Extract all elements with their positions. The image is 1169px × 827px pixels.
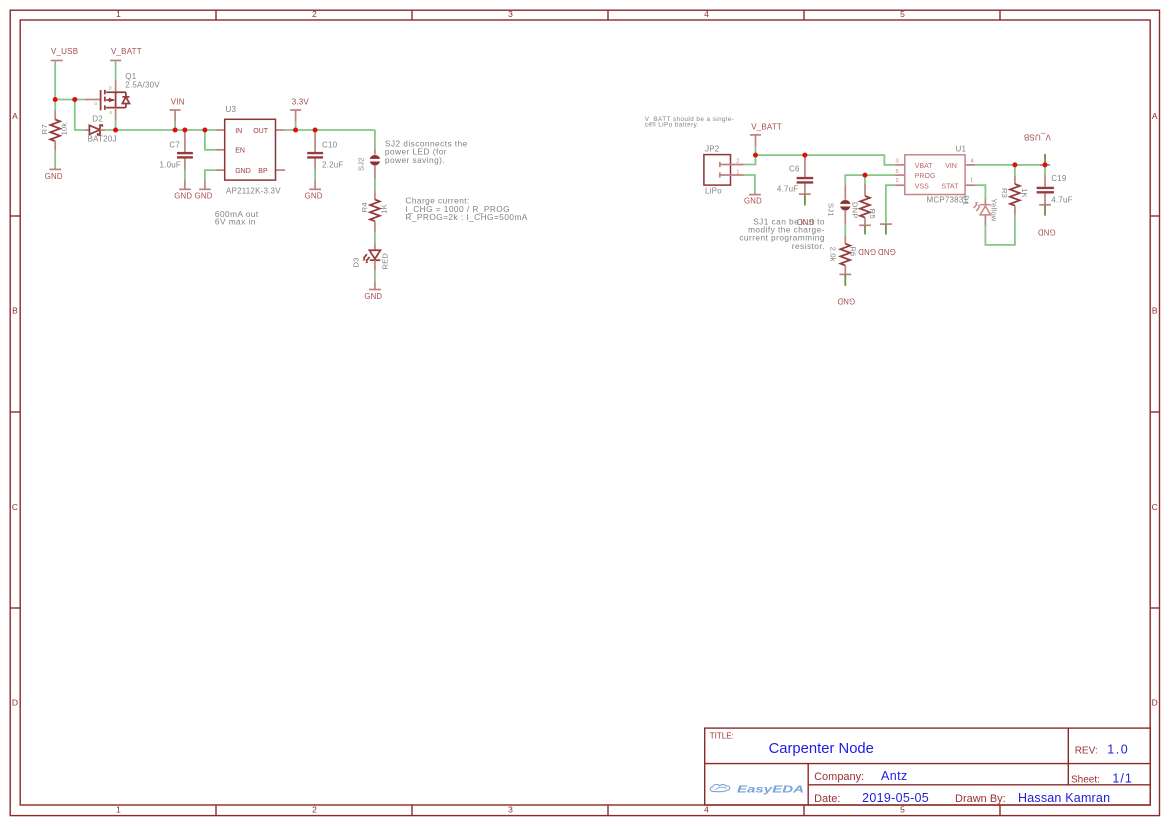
wire rail down to SJ2	[374, 130, 376, 149]
svg-text:1: 1	[116, 9, 121, 19]
svg-text:2019-05-05: 2019-05-05	[862, 791, 929, 805]
svg-text:VBAT: VBAT	[915, 163, 933, 170]
svg-text:5: 5	[896, 169, 899, 175]
resistor R6	[829, 236, 858, 275]
wire Q1 source to main rail	[115, 120, 117, 131]
svg-text:2: 2	[896, 178, 899, 184]
net flag 3.3V	[290, 97, 309, 121]
svg-text:JP2: JP2	[705, 145, 720, 154]
node 3.3V junction	[293, 128, 298, 133]
net flag V_BATT right	[750, 123, 782, 146]
wire D2 to Q1 source node	[105, 129, 115, 131]
wire JP2 pin1 to ground	[744, 175, 755, 193]
wire main rail to U3 IN	[116, 129, 216, 131]
node EN branch junction	[202, 128, 207, 133]
svg-text:AP2112K-3.3V: AP2112K-3.3V	[226, 187, 281, 196]
svg-text:5: 5	[900, 9, 905, 19]
svg-text:Carpenter Node: Carpenter Node	[769, 741, 874, 757]
svg-text:SJ1: SJ1	[827, 203, 836, 217]
svg-text:4: 4	[704, 9, 709, 19]
svg-text:R7: R7	[40, 124, 49, 134]
wire STAT to LED	[976, 185, 986, 199]
frame tick right A/B	[1150, 215, 1159, 217]
frame tick top 5	[999, 10, 1001, 20]
svg-text:EN: EN	[235, 148, 245, 155]
svg-text:SJ2: SJ2	[356, 157, 365, 171]
svg-text:3: 3	[896, 159, 899, 165]
svg-text:D: D	[12, 697, 18, 707]
wire main rail right	[756, 155, 895, 165]
svg-text:3.3V: 3.3V	[292, 97, 310, 106]
svg-text:V_USB: V_USB	[1024, 133, 1051, 142]
capacitor C6	[777, 155, 813, 194]
resistor R4	[360, 191, 388, 232]
wire V_USB down	[54, 61, 56, 99]
frame tick bottom 4	[803, 805, 805, 816]
svg-text:TITLE:: TITLE:	[710, 732, 734, 741]
frame tick bottom 2	[411, 805, 413, 816]
ground below R6 rotated	[837, 274, 855, 305]
title block divider rev cell	[1067, 728, 1069, 785]
net flag V_USB rotated	[1024, 133, 1051, 165]
svg-text:R6: R6	[849, 246, 858, 256]
svg-text:VSS: VSS	[915, 183, 929, 190]
svg-text:2: 2	[312, 805, 317, 815]
svg-text:V_USB: V_USB	[51, 47, 78, 56]
svg-text:4.7uF: 4.7uF	[777, 185, 798, 194]
svg-text:V_BATT: V_BATT	[751, 123, 782, 132]
wire C10 to ground	[314, 169, 316, 180]
frame tick bottom 5	[999, 805, 1001, 816]
wire V_USB to gate	[55, 99, 84, 101]
svg-text:U1: U1	[956, 145, 967, 154]
ground below C6 rotated	[796, 194, 814, 226]
wire branch down to D2	[75, 100, 85, 131]
op-amp U1 charger	[895, 145, 976, 205]
svg-text:V_BATT: V_BATT	[111, 47, 142, 56]
frame tick left C/D	[10, 607, 20, 609]
svg-text:1: 1	[736, 169, 739, 175]
wire U3 GND pin	[205, 170, 216, 180]
svg-text:D1: D1	[962, 195, 971, 205]
svg-text:VIN: VIN	[171, 97, 185, 106]
LED D1	[962, 195, 999, 225]
frame tick top 3	[607, 10, 609, 20]
wire EN branch	[205, 130, 216, 150]
capacitor C7	[160, 130, 193, 169]
title block box	[705, 728, 1150, 805]
svg-text:DNP: DNP	[850, 202, 859, 219]
node C19 junction	[1043, 162, 1048, 167]
svg-text:B: B	[1152, 305, 1158, 315]
wire U3 OUT rail	[285, 129, 375, 131]
transistor Q1	[85, 72, 161, 120]
svg-text:2.2uF: 2.2uF	[322, 160, 343, 169]
svg-text:GND: GND	[45, 172, 63, 181]
svg-text:GND: GND	[174, 192, 192, 201]
node PROG junction	[863, 173, 868, 178]
svg-text:cell LiPo battery.: cell LiPo battery.	[645, 122, 699, 129]
svg-text:D2: D2	[92, 115, 103, 124]
svg-text:R3: R3	[1000, 188, 1009, 198]
note charge current	[405, 196, 527, 223]
svg-text:STAT: STAT	[942, 183, 960, 190]
svg-text:OUT: OUT	[253, 128, 269, 135]
svg-text:G: G	[94, 101, 97, 106]
svg-text:Drawn By:: Drawn By:	[955, 793, 1006, 805]
svg-text:LiPo: LiPo	[705, 187, 722, 196]
svg-text:Company:: Company:	[814, 771, 864, 783]
frame tick top 2	[411, 10, 413, 20]
svg-text:PROG: PROG	[915, 173, 936, 180]
note V_BATT single cell	[645, 116, 735, 129]
node VIN junction	[173, 128, 178, 133]
node V_BATT junction	[753, 153, 758, 158]
svg-text:Sheet:: Sheet:	[1071, 774, 1100, 785]
connector JP2	[704, 145, 744, 196]
svg-text:GND: GND	[305, 191, 323, 200]
ground below U3	[195, 180, 213, 200]
svg-text:2: 2	[736, 158, 739, 164]
svg-text:C7: C7	[169, 141, 180, 150]
node C6 junction	[802, 153, 807, 158]
wire JP2 pin2 to rail	[744, 155, 756, 164]
svg-text:GND: GND	[235, 168, 251, 175]
svg-text:D3: D3	[352, 257, 361, 267]
wire VSS to ground	[886, 185, 895, 224]
svg-text:C: C	[12, 502, 18, 512]
net flag V_BATT	[110, 47, 142, 60]
ground below VSS rotated	[878, 224, 896, 256]
svg-text:1: 1	[116, 805, 121, 815]
svg-text:GND: GND	[858, 247, 876, 256]
svg-text:2.0k: 2.0k	[829, 247, 838, 262]
node gate branch junction	[72, 97, 77, 102]
svg-text:resistor.: resistor.	[792, 241, 825, 251]
wire LED to R3 bottom	[985, 215, 1015, 245]
svg-text:R4: R4	[360, 202, 369, 212]
svg-text:GND: GND	[364, 292, 382, 301]
wire V_BATT stub	[755, 146, 757, 155]
wire R4 to D3	[374, 232, 376, 243]
capacitor C19	[1037, 165, 1073, 205]
svg-text:VIN: VIN	[945, 163, 957, 170]
svg-text:BAT20J: BAT20J	[88, 134, 117, 143]
title block divider horizontal 1	[705, 763, 1150, 765]
svg-text:REV:: REV:	[1075, 745, 1098, 756]
EasyEDA logo cloud	[710, 784, 730, 791]
frame tick bottom 3	[607, 805, 609, 816]
node R3 junction	[1012, 162, 1017, 167]
svg-text:C: C	[1152, 502, 1158, 512]
node C7 junction	[182, 128, 187, 133]
svg-text:3: 3	[508, 9, 513, 19]
svg-text:IN: IN	[235, 128, 242, 135]
svg-text:GND: GND	[744, 197, 762, 206]
net flag VIN	[170, 97, 185, 121]
svg-text:A: A	[12, 111, 18, 121]
wire SJ1 to R6	[844, 224, 846, 236]
net flag V_USB	[51, 47, 79, 60]
svg-text:A: A	[1152, 111, 1158, 121]
LED D3	[352, 243, 390, 270]
svg-text:5: 5	[900, 805, 905, 815]
resistor R5	[850, 175, 877, 225]
wire C7 to ground	[184, 169, 186, 180]
wire SJ2 to R4	[374, 179, 376, 191]
node V_USB junction	[53, 97, 58, 102]
svg-text:6V max in: 6V max in	[215, 216, 256, 226]
svg-text:2: 2	[312, 9, 317, 19]
svg-text:BP: BP	[258, 168, 268, 175]
frame tick left B/C	[10, 411, 20, 413]
node Q1 source junction	[113, 128, 118, 133]
resistor R7	[40, 100, 69, 151]
title block divider horizontal 2	[808, 784, 1150, 786]
svg-text:C10: C10	[322, 141, 338, 150]
frame tick top 1	[215, 10, 217, 20]
svg-text:S: S	[109, 110, 112, 115]
ground below R7	[45, 167, 63, 181]
wire VIN rail	[976, 164, 1045, 166]
svg-text:U3: U3	[226, 105, 237, 114]
frame tick bottom 1	[215, 805, 217, 816]
svg-text:GND: GND	[837, 297, 855, 306]
svg-text:R_PROG=2k : I_CHG=500mA: R_PROG=2k : I_CHG=500mA	[405, 212, 527, 222]
ground below C10	[305, 180, 323, 200]
frame tick top 4	[803, 10, 805, 20]
svg-text:GND: GND	[1038, 227, 1056, 236]
wire PROG rail	[845, 175, 894, 185]
ground below JP2	[744, 193, 762, 206]
svg-text:D: D	[1152, 697, 1158, 707]
frame tick right C/D	[1150, 607, 1159, 609]
wire V_BATT down to Q1 drain	[115, 61, 117, 80]
diode D2	[85, 115, 117, 144]
title block divider logo cell	[807, 764, 809, 805]
svg-text:RED: RED	[380, 253, 389, 270]
svg-text:Antz: Antz	[881, 769, 908, 783]
svg-text:1K: 1K	[379, 204, 388, 214]
svg-text:1: 1	[970, 178, 973, 184]
svg-text:Hassan Kamran: Hassan Kamran	[1018, 791, 1110, 805]
node C10 junction	[313, 128, 318, 133]
svg-text:B: B	[12, 305, 18, 315]
svg-text:1.0: 1.0	[1107, 742, 1129, 756]
wire VIN stub	[174, 121, 176, 130]
svg-text:2.5A/30V: 2.5A/30V	[125, 80, 160, 89]
ground below C7	[174, 180, 192, 200]
wire D3 to ground	[374, 270, 376, 281]
svg-text:3: 3	[508, 805, 513, 815]
capacitor C10	[307, 130, 343, 169]
svg-text:10k: 10k	[60, 123, 69, 136]
svg-text:power saving).: power saving).	[385, 155, 445, 165]
resistor R3	[1000, 165, 1029, 215]
frame tick left A/B	[10, 215, 20, 217]
svg-text:1.0uF: 1.0uF	[160, 160, 181, 169]
svg-text:C6: C6	[789, 165, 800, 174]
svg-text:C19: C19	[1051, 174, 1067, 183]
note 600mA	[215, 209, 259, 226]
svg-text:1/1: 1/1	[1112, 772, 1132, 786]
note SJ1 cut	[739, 216, 825, 251]
svg-text:Yellow: Yellow	[990, 199, 999, 222]
svg-text:EasyEDA: EasyEDA	[737, 784, 804, 795]
solder jumper SJ1	[827, 185, 851, 224]
svg-text:GND: GND	[195, 192, 213, 201]
svg-text:4.7uF: 4.7uF	[1051, 195, 1072, 204]
wire R7 to ground	[54, 151, 56, 168]
svg-text:D: D	[109, 85, 112, 90]
ground below D3	[364, 281, 382, 301]
solder jumper SJ2	[356, 149, 380, 179]
svg-text:1K: 1K	[1020, 188, 1029, 198]
svg-text:4: 4	[704, 805, 709, 815]
wire 3.3V stub	[295, 121, 297, 130]
svg-text:GND: GND	[878, 247, 896, 256]
note SJ2 disconnects	[385, 138, 468, 165]
frame tick right B/C	[1150, 411, 1159, 413]
svg-text:Date:: Date:	[814, 793, 840, 805]
svg-text:R5: R5	[868, 209, 877, 219]
op-amp U3 regulator	[216, 105, 286, 196]
ground below R5 rotated	[858, 225, 876, 256]
ground below C19 rotated	[1038, 205, 1056, 237]
